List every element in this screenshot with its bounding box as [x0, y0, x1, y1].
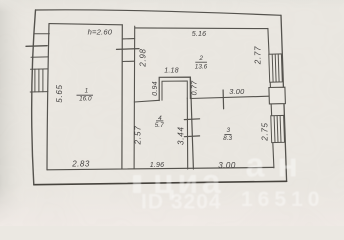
svg-text:16.0: 16.0	[79, 95, 92, 102]
svg-text:2.75: 2.75	[261, 122, 270, 141]
svg-text:5.7: 5.7	[155, 122, 164, 129]
svg-text:16510: 16510	[241, 188, 324, 211]
svg-text:ID 3204: ID 3204	[141, 191, 222, 214]
svg-text:ан: ан	[246, 147, 311, 185]
svg-text:0.77: 0.77	[190, 80, 198, 95]
svg-text:2: 2	[198, 55, 203, 62]
svg-text:13.6: 13.6	[195, 64, 208, 71]
svg-text:8.3: 8.3	[223, 135, 232, 142]
svg-text:5.65: 5.65	[55, 84, 64, 102]
svg-text:3.44: 3.44	[176, 126, 185, 145]
svg-text:2.77: 2.77	[253, 46, 262, 65]
svg-text:2.57: 2.57	[134, 125, 143, 145]
svg-text:3.00: 3.00	[229, 87, 245, 96]
svg-text:1.18: 1.18	[164, 67, 179, 75]
svg-text:h=2.60: h=2.60	[88, 27, 113, 36]
svg-text:2.98: 2.98	[139, 48, 148, 67]
svg-text:2.83: 2.83	[71, 160, 90, 169]
svg-text:3: 3	[227, 127, 231, 134]
svg-text:0.94: 0.94	[151, 81, 159, 96]
svg-text:5.16: 5.16	[192, 30, 207, 38]
svg-text:1: 1	[85, 88, 89, 95]
